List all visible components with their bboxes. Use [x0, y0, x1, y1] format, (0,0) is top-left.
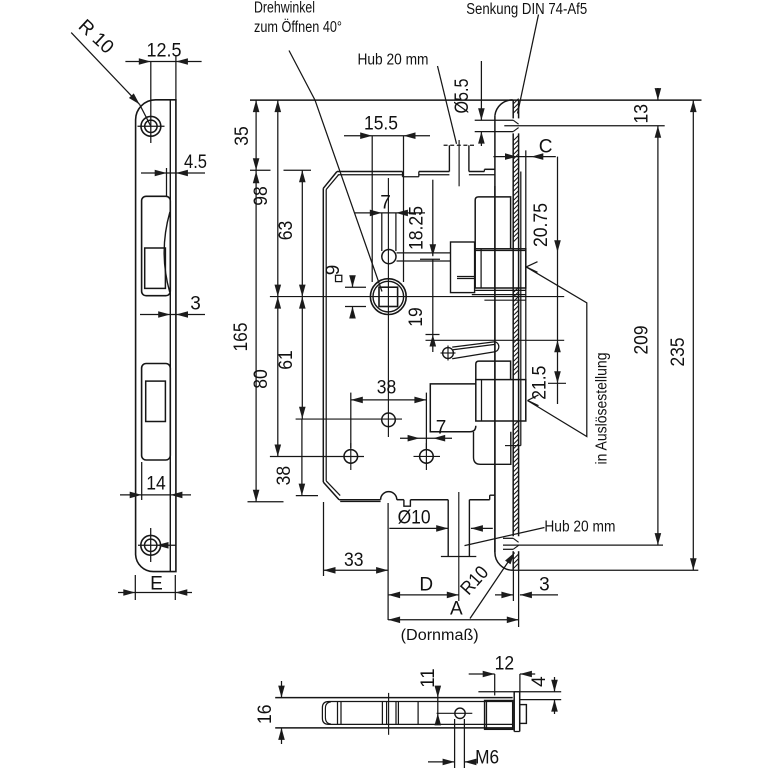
dim 14 extensions [141, 462, 143, 500]
tick 21.5 bottom [548, 382, 566, 384]
dim O10 line [389, 527, 448, 529]
faceplate inner right edge line [169, 100, 171, 572]
svg-text:M6: M6 [475, 748, 499, 769]
latch head inner top line [475, 250, 526, 252]
tick at case top left [250, 169, 271, 171]
bottom countersink [513, 538, 518, 542]
bottom view 4 lower ext [520, 699, 562, 701]
case bottom tab [404, 500, 411, 507]
open arrow latch [526, 262, 537, 273]
dim E line [118, 592, 192, 594]
svg-text:14: 14 [146, 474, 166, 495]
dim 4.5 line [141, 172, 205, 174]
svg-text:zum Öffnen 40°: zum Öffnen 40° [254, 18, 342, 36]
dim O5.5 line [480, 61, 482, 120]
bottom screw hole side lines [503, 537, 513, 539]
upper hole O7 [382, 250, 396, 264]
svg-text:Ø10: Ø10 [398, 508, 431, 529]
case left edge extension [323, 502, 325, 576]
case bottom right step [489, 495, 491, 500]
bottom view divider 4 [417, 702, 419, 725]
svg-text:3: 3 [539, 575, 550, 596]
bottom holes centerline [270, 456, 364, 458]
svg-text:9: 9 [323, 265, 344, 276]
svg-text:61: 61 [276, 350, 297, 370]
dim 7 upper line [355, 212, 425, 214]
dim 235 line [692, 100, 694, 570]
case bottom semicircle notch [381, 492, 397, 500]
tick 18.25 [420, 258, 440, 260]
bottom view divider pair 3 [395, 702, 397, 725]
dim 12 extensions [494, 674, 496, 695]
svg-text:19: 19 [406, 307, 427, 327]
dim 33 line [324, 569, 389, 571]
wechsel link rod [452, 342, 499, 359]
svg-text:20.75: 20.75 [531, 203, 552, 247]
top reference line [250, 99, 702, 101]
svg-text:Senkung DIN 74-Af5: Senkung DIN 74-Af5 [466, 1, 587, 18]
leader line R 10 [71, 33, 139, 105]
svg-text:16: 16 [255, 704, 276, 724]
nut horizontal centerline [270, 296, 564, 298]
deadbolt tail piece [474, 432, 511, 465]
deadbolt body [430, 384, 476, 432]
svg-text:235: 235 [668, 338, 689, 367]
latch head bottom lines [475, 289, 526, 291]
top guide pin sides [448, 145, 450, 171]
leader hub top [438, 66, 457, 144]
svg-text:Hub 20 mm: Hub 20 mm [358, 52, 429, 69]
latch head inner vertical [480, 249, 482, 288]
svg-text:21.5: 21.5 [530, 366, 551, 400]
leader hub bottom [465, 528, 545, 546]
stulp section outer line [518, 100, 520, 118]
case front wall line [494, 186, 496, 552]
bottom view end block [485, 701, 513, 730]
svg-text:E: E [150, 574, 163, 595]
main axis extension [387, 503, 389, 620]
bottom view divider pair 1 [337, 702, 339, 725]
top screw hole outer circle [141, 116, 161, 136]
deadbolt head [476, 380, 526, 421]
stulp side top arc [495, 100, 513, 116]
bottom view divider pair 2 [381, 702, 383, 725]
dim 38h extensions [350, 393, 352, 448]
dim 61 line [301, 297, 303, 419]
latch spring block [451, 242, 475, 293]
latch upper body [475, 197, 510, 249]
svg-text:Drehwinkel: Drehwinkel [254, 0, 315, 17]
dim square9 ticks [345, 286, 366, 288]
M6 screw circle [455, 708, 465, 718]
bottom view axis line [388, 693, 390, 735]
bottom view stulp strip [513, 692, 515, 732]
stulp bottom line ext 235 [513, 569, 699, 571]
svg-text:18.25: 18.25 [406, 206, 427, 250]
dim 38 horizontal line [351, 399, 427, 401]
svg-text:4.5: 4.5 [184, 152, 207, 173]
dim 12.5 line [125, 61, 201, 63]
case bottom edge inner [340, 501, 380, 503]
dim E extensions [134, 575, 136, 600]
svg-text:C: C [539, 137, 553, 158]
dim 15.5 line [344, 135, 430, 137]
dim 7 upper extensions [381, 213, 383, 251]
top guide pin centerline [458, 140, 460, 186]
lower hole O7 on axis [382, 413, 396, 427]
bottom view protruding bolt [520, 705, 527, 724]
M6 centerline [437, 712, 473, 714]
label square9 [336, 275, 342, 281]
leader senkung [518, 15, 539, 114]
svg-text:11: 11 [418, 668, 439, 688]
case bottom-left chamfer [323, 482, 339, 500]
svg-text:12.5: 12.5 [147, 41, 182, 62]
deadbolt cutout [142, 364, 171, 461]
faceplate front view outline [136, 100, 176, 572]
bottom view case outer [275, 697, 513, 699]
leader in ausloesestellung [526, 267, 587, 437]
case left edge [322, 188, 324, 482]
top countersink [513, 120, 518, 124]
dim 12.5 right extension [175, 55, 177, 100]
dim 19 line [432, 259, 434, 352]
latch spring block lines [457, 276, 475, 278]
dim 13 arrow top [655, 88, 662, 100]
dim 165 line [255, 170, 257, 502]
dim C line [493, 156, 555, 158]
main vertical centerline [387, 178, 389, 437]
dim 4 arrows [551, 680, 558, 692]
svg-text:98: 98 [251, 186, 272, 206]
svg-text:13: 13 [631, 104, 652, 124]
svg-text:38: 38 [377, 378, 397, 399]
case bottom edge [339, 499, 381, 501]
wechsel link crosshair [441, 352, 456, 354]
stulp section inner line [512, 100, 514, 119]
stulp ext below [512, 570, 514, 601]
svg-text:in Auslösestellung: in Auslösestellung [593, 353, 610, 465]
dim 98 line [277, 100, 279, 297]
bottom view stulp top ext [478, 691, 561, 693]
latch head [475, 249, 526, 288]
dim square9 arrows [349, 275, 356, 287]
case right wall line [520, 172, 522, 446]
case top notch [402, 172, 404, 177]
dim 35 line [255, 100, 257, 170]
top screw hole side lines [475, 119, 514, 121]
svg-text:Hub 20 mm: Hub 20 mm [544, 519, 615, 536]
deadbolt head inner vertical [481, 380, 483, 421]
open arrow deadbolt [528, 395, 539, 406]
leader R10 bottom [470, 553, 515, 619]
nut outer circle [370, 279, 406, 315]
deadbolt head inner rect [146, 381, 166, 421]
dim M6 arrows [428, 761, 455, 763]
deadbolt upper rect [476, 361, 511, 380]
tick 38v bottom [296, 495, 318, 497]
tick 63 top [284, 169, 312, 171]
bottom-left hole vertical tick [350, 443, 352, 470]
nut inner circle [373, 281, 404, 312]
bottom guide pin centerline [458, 492, 460, 601]
top hole centerline to right [504, 125, 664, 127]
svg-text:7: 7 [380, 193, 391, 214]
dim A line [388, 619, 519, 621]
dim 14 line [120, 494, 191, 496]
latch cutout [142, 196, 171, 295]
dim 7 lower line [400, 437, 452, 439]
case top edge inner [338, 174, 403, 176]
latch bolt inner rect [145, 248, 166, 288]
svg-text:63: 63 [276, 221, 297, 241]
stulp section hatching [513, 99, 518, 569]
bottom view end block inner [486, 701, 488, 730]
svg-text:D: D [419, 575, 433, 596]
svg-text:209: 209 [632, 326, 653, 355]
M6 extension lines [454, 719, 456, 768]
faceplate short fold line [166, 168, 168, 196]
dim 11 line [437, 686, 439, 713]
svg-text:Ø5.5: Ø5.5 [452, 79, 473, 114]
dim D line [388, 594, 459, 596]
bottom screw hole inner circle [145, 539, 157, 551]
dim 63 line [301, 170, 303, 296]
stulp side left wall [494, 116, 496, 553]
tick 19 bottom [426, 334, 440, 336]
case top right step [483, 169, 485, 171]
bottom view case inner [322, 702, 512, 725]
svg-text:15.5: 15.5 [364, 114, 398, 135]
bottom-right hole crosshair [414, 455, 441, 457]
leader drehwinkel [289, 51, 382, 292]
top screw hole inner circle [145, 120, 157, 132]
top screw hole crosshair [138, 125, 165, 127]
dim 3 line [140, 314, 205, 316]
bottom screw hole crosshair [138, 544, 176, 546]
lower hole crosshair [296, 418, 402, 420]
case top edge outer [337, 171, 403, 173]
svg-text:4: 4 [529, 676, 550, 687]
svg-text:(Dornmaß): (Dornmaß) [401, 627, 479, 644]
dim 80 line [277, 297, 279, 457]
dim 3 stulp line [495, 594, 513, 596]
dim 209 line [657, 126, 659, 545]
svg-text:7: 7 [436, 418, 447, 439]
stulp side bottom arc [495, 553, 513, 571]
wechsel link circle [443, 348, 454, 359]
nut square hole [379, 287, 398, 306]
bottom-right hole O7 [420, 450, 434, 464]
dim 18.25 line [432, 180, 434, 257]
case top-left chamfer [323, 172, 337, 189]
svg-text:38: 38 [274, 466, 295, 486]
dim 38 vertical line [301, 419, 303, 496]
dim 12 line [469, 673, 495, 675]
latch bolt curve in cutout [164, 212, 170, 292]
upper hole side ticks [397, 252, 451, 254]
bottom guide pin cap [441, 556, 476, 558]
dim 21.5 arrows [554, 340, 561, 352]
bottom-left hole O7 [344, 450, 358, 464]
svg-text:3: 3 [190, 294, 201, 315]
svg-text:12: 12 [495, 654, 515, 675]
svg-text:35: 35 [232, 126, 253, 146]
bottom guide pin sides [447, 500, 449, 557]
svg-text:A: A [450, 599, 463, 620]
tick 165 bottom [248, 501, 284, 503]
tick 21.5 top [426, 339, 565, 341]
dim 20.75 line [557, 157, 559, 404]
top guide pin dashed cap [444, 144, 475, 146]
front faces plane line [525, 150, 527, 419]
svg-text:80: 80 [251, 369, 272, 389]
dim 15.5 extensions [371, 136, 373, 282]
svg-text:165: 165 [231, 323, 252, 352]
bottom screw hole outer circle [141, 535, 161, 555]
svg-text:33: 33 [344, 550, 364, 571]
dim 16 arrows [278, 686, 285, 698]
bottom hole centerline ext 209 [503, 544, 663, 546]
